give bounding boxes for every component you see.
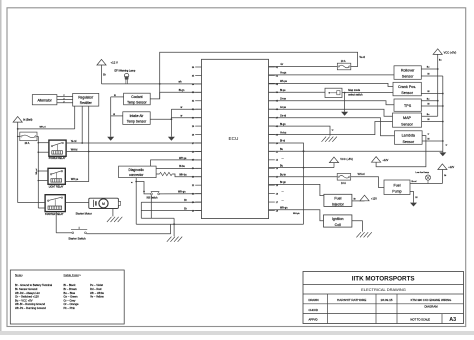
svg-text:DRAWN: DRAWN [309, 298, 319, 302]
svg-text:KTM 390 CXC ENGINE WIRING: KTM 390 CXC ENGINE WIRING [411, 298, 452, 302]
svg-text:Map mode: Map mode [348, 89, 360, 92]
wire MAP sensor to VCC bus [422, 114, 438, 116]
svg-text:10 A: 10 A [341, 182, 346, 185]
svg-text:Bu: Bu [280, 164, 284, 167]
svg-text:Lambda: Lambda [402, 134, 416, 138]
svg-text:bt (Batt): bt (Batt) [23, 117, 32, 121]
svg-text:Pk – Pink: Pk – Pink [64, 306, 76, 310]
svg-text:Gr – Grey: Gr – Grey [64, 298, 76, 302]
wire regulator output to power relay rail 1 [81, 106, 83, 144]
fuel pump M2 [384, 180, 410, 195]
svg-text:w: w [114, 94, 116, 97]
wire ECU pin 18 to ignition coil [269, 207, 324, 221]
wire kill switch to diagnostic drop [136, 182, 150, 194]
svg-text:10 A: 10 A [341, 60, 346, 63]
svg-text:Ye-bu: Ye-bu [280, 131, 287, 134]
fuse F2 10A [337, 56, 365, 70]
svg-text:Br: Br [184, 199, 187, 202]
wire intake sensor ground [111, 113, 123, 116]
power symbol +12V (lambda heater) [372, 157, 389, 163]
power symbol +12V (injector) [360, 195, 377, 201]
svg-text:Temp Sensor: Temp Sensor [127, 120, 147, 124]
svg-text:Ye-rd: Ye-rd [359, 56, 365, 59]
wire rollover sensor to VCC bus [421, 67, 438, 70]
wire battery drop to starter relay [18, 202, 45, 204]
svg-text:20 A: 20 A [25, 142, 30, 145]
svg-text:Bu: Bu [427, 114, 430, 116]
svg-text:15: 15 [276, 185, 279, 187]
svg-text:Bl-gn: Bl-gn [179, 89, 185, 92]
wire starter relay to starter motor [65, 202, 89, 204]
wire intake signal to ECU pin 31 [150, 118, 172, 120]
svg-text:WH-gn: WH-gn [178, 191, 186, 194]
notes and cable colour legend box [10, 270, 124, 324]
wire diagnostic connector to ECU pin 24 [156, 165, 201, 168]
svg-text:35: 35 [192, 75, 195, 77]
fuel injector Y1 [324, 194, 352, 206]
svg-text:12: 12 [276, 160, 279, 162]
ground arrow (map switch) [341, 112, 348, 116]
svg-text:Sensor: Sensor [401, 91, 413, 95]
wire fuel injector to +12V [352, 198, 365, 201]
diagnostic connector X1 [119, 166, 157, 178]
svg-text:Bl: Bl [428, 139, 430, 141]
fuse F3 10A [337, 174, 351, 186]
svg-text:VCC (+5V): VCC (+5V) [444, 50, 457, 54]
svg-text:+12V: +12V [448, 166, 454, 169]
svg-text:Sensor: Sensor [401, 123, 413, 127]
svg-text:+12 V: +12 V [111, 60, 119, 64]
wire ECU pin 4 to map switch [269, 89, 326, 92]
svg-text:18.09.15: 18.09.15 [380, 298, 392, 302]
svg-text:WH-bu: WH-bu [179, 174, 187, 177]
wire light relay to supply rail [65, 152, 88, 182]
page left edge shadow [0, 0, 2, 335]
ground hatch (sensor shield) [322, 137, 337, 142]
svg-text:HARSHIT RATHORE: HARSHIT RATHORE [337, 298, 366, 302]
svg-text:Bu: Bu [280, 148, 284, 151]
svg-text:01: 01 [276, 67, 279, 69]
svg-text:Starter Motor: Starter Motor [76, 211, 92, 215]
ECU U1 [202, 59, 269, 218]
svg-text:Regulator/: Regulator/ [78, 96, 93, 100]
map mode select switch S3 [325, 88, 363, 97]
wire ECU pin 13 VCC run [269, 158, 335, 169]
svg-text:Bu – Blue: Bu – Blue [64, 291, 76, 295]
page bottom edge shadow [0, 331, 474, 335]
wire kill switch ground drop [150, 195, 152, 219]
svg-text:Pump: Pump [392, 190, 401, 194]
svg-text:w: w [113, 113, 115, 116]
svg-text:WH-pk: WH-pk [293, 213, 300, 215]
wire ECU pin 8 to sensor ground [269, 123, 334, 136]
svg-text:wh: wh [179, 81, 183, 84]
svg-text:Bu: Bu [439, 59, 442, 61]
power relay K1 [49, 140, 66, 160]
wire power relay to ECU pin 26 [66, 148, 201, 151]
svg-text:CHCKD: CHCKD [309, 308, 319, 312]
resistor R1 [156, 172, 201, 177]
svg-text:Br: Br [444, 174, 446, 177]
alternator G1 [32, 95, 57, 105]
svg-text:Bl – Black: Bl – Black [64, 283, 77, 287]
wire bottom ground bus [136, 213, 303, 224]
svg-text:Wh-Pk – Running Ground: Wh-Pk – Running Ground [15, 306, 46, 310]
wire ECU pin 1 to fuse F2 [269, 63, 338, 66]
title block [303, 272, 464, 324]
crank position sensor B4 [393, 82, 421, 96]
wire +12V top bus [160, 52, 358, 99]
svg-text:WH-ye: WH-ye [179, 157, 187, 160]
svg-text:Or-ye: Or-ye [280, 98, 287, 101]
svg-text:WH-rd: WH-rd [358, 173, 366, 176]
throttle position sensor TPS B5 [394, 99, 421, 111]
ECU left pin stubs and pin numbers [192, 67, 202, 212]
junction bottom bus right [303, 150, 305, 152]
svg-text:Fuel: Fuel [394, 183, 401, 187]
wire starter motor to ground [112, 208, 114, 216]
svg-text:Br: Br [354, 198, 356, 200]
svg-text:select switch: select switch [348, 94, 363, 97]
svg-text:Gn – Green: Gn – Green [64, 295, 79, 299]
wire TPS to ground bus [421, 104, 443, 107]
svg-text:EFI Warning Lamp: EFI Warning Lamp [115, 69, 136, 72]
wire ECU pin 2 to rollover sensor [269, 72, 395, 75]
svg-text:Rd – Red: Rd – Red [90, 287, 102, 291]
wire map switch ground arrow [344, 93, 346, 112]
svg-text:+12V: +12V [371, 197, 377, 200]
svg-text:16: 16 [276, 194, 279, 196]
kill switch S1 [143, 191, 159, 199]
svg-text:36: 36 [192, 67, 195, 69]
lambda sensor B7 [395, 131, 423, 145]
svg-text:Temp Sensor: Temp Sensor [127, 101, 147, 105]
svg-text:WH-gn: WH-gn [280, 207, 288, 210]
svg-text:Fuel: Fuel [334, 197, 341, 201]
svg-text:22: 22 [192, 185, 195, 187]
svg-text:WH-ye: WH-ye [71, 178, 79, 181]
svg-text:Bu-br: Bu-br [280, 174, 286, 177]
svg-text:Wh-rd: Wh-rd [36, 168, 38, 175]
ignition coil T1 [324, 215, 352, 227]
sensor ground bus [443, 76, 448, 152]
svg-text:WH-bl: WH-bl [71, 148, 78, 151]
wire fuel pump to +12V rail [410, 181, 442, 184]
light relay K2 [48, 168, 65, 188]
wire diagnostic connector ground drop [131, 178, 137, 225]
svg-text:w: w [332, 130, 334, 132]
fuse F1 20A [20, 132, 37, 145]
wire lambda heater +12V loop [376, 133, 430, 166]
wire lambda sensor to ground bus [422, 139, 444, 142]
svg-text:Bl- Sensor Ground: Bl- Sensor Ground [15, 287, 38, 291]
svg-text:Injector: Injector [332, 203, 345, 207]
svg-text:—: — [282, 158, 285, 160]
svg-text:+12V: +12V [382, 159, 388, 162]
svg-text:Bl-ye: Bl-ye [280, 89, 286, 92]
svg-text:Br: Br [184, 207, 187, 210]
wire TPS to VCC bus [421, 98, 438, 101]
svg-text:Br-rd: Br-rd [412, 181, 418, 183]
wire ECU pin 3 to crank sensor [269, 80, 394, 86]
svg-text:29: 29 [192, 126, 195, 128]
wire fuel pump ground [410, 192, 418, 203]
svg-text:M: M [102, 202, 105, 206]
coolant temp sensor B1 [124, 93, 151, 105]
svg-text:Low fuel lamp: Low fuel lamp [416, 172, 430, 174]
svg-text:WH-rd: WH-rd [40, 126, 47, 129]
power symbol +12V (fuel pump) [438, 164, 455, 184]
svg-text:w: w [446, 145, 448, 147]
svg-text:DIAGRAM: DIAGRAM [424, 304, 438, 308]
wire map switch to crank sensor [342, 92, 393, 94]
svg-text:STARTER RELAY: STARTER RELAY [45, 213, 64, 216]
wires relay bus to light relay [38, 170, 49, 181]
svg-text:Bu: Bu [427, 67, 430, 69]
svg-text:Notes: Notes [15, 273, 23, 277]
wire power relay to ECU pin 27 [66, 140, 201, 143]
wire regulator output to power relay rail 2 [88, 106, 90, 152]
svg-text:Ye-gn: Ye-gn [280, 72, 287, 75]
svg-text:Or – Switched +12V: Or – Switched +12V [15, 295, 39, 299]
svg-text:—: — [282, 191, 285, 193]
svg-text:Bl-rd: Bl-rd [280, 140, 286, 143]
ground hatch (starter motor) [107, 217, 122, 222]
wire MAP sensor to ground bus [422, 119, 444, 122]
wire crank sensor to ground bus [421, 91, 443, 94]
svg-text:13: 13 [276, 168, 279, 170]
svg-text:Wh-ye: Wh-ye [280, 80, 288, 83]
wire ECU pin 19 run [141, 199, 201, 202]
svg-text:Bl: Bl [428, 104, 430, 106]
wires relay bus to power relay [38, 142, 49, 153]
wire ECU pin 15 to fuel injector [269, 181, 324, 202]
svg-text:02: 02 [276, 75, 279, 77]
svg-text:Alternator: Alternator [37, 98, 52, 102]
svg-text:Wh-Bl – Running Ground: Wh-Bl – Running Ground [15, 302, 46, 306]
svg-text:Ye – Yellow: Ye – Yellow [90, 295, 104, 299]
wire coolant signal to ECU pin 33 [150, 89, 201, 99]
wire kill switch to ECU pin 21 [160, 191, 202, 194]
wire ECU pin 14 to fuse F3 [269, 174, 338, 177]
svg-text:17: 17 [276, 202, 279, 204]
wire coolant sensor ground [111, 94, 124, 97]
svg-text:18: 18 [276, 210, 279, 212]
svg-text:Br - Ground to Battery Termina: Br - Ground to Battery Terminal [15, 283, 53, 287]
EFI warning lamp DS1 [115, 69, 136, 84]
svg-text:Bl: Bl [428, 91, 430, 93]
low fuel lamp DS2 [416, 172, 431, 184]
power symbol VCC +5V (ECU) [329, 157, 353, 163]
wire ECU pin 10 drop to bus [269, 140, 304, 225]
wire ECU pin 7 to lambda sensor [269, 114, 395, 135]
ground arrow (fuel pump) [410, 203, 417, 207]
wire battery main drop [17, 129, 19, 203]
ECU right pin stubs and pin numbers [269, 67, 279, 212]
wire ground collector [141, 218, 174, 236]
svg-text:NOT TO SCALE: NOT TO SCALE [410, 318, 430, 322]
svg-text:Sensor: Sensor [402, 140, 414, 144]
svg-text:w: w [428, 133, 430, 135]
MAP sensor B6 [393, 113, 422, 127]
rollover sensor B3 [394, 66, 421, 80]
wire battery to fuse F1 [17, 136, 20, 138]
ground hatch (main ground) [167, 237, 182, 242]
svg-text:Wh – White: Wh – White [90, 291, 104, 295]
wire ignition coil to ground [352, 221, 363, 232]
wire ECU pin 5 to TPS [269, 98, 395, 105]
svg-text:Gr: Gr [281, 63, 284, 66]
svg-text:Coolant: Coolant [131, 95, 142, 99]
svg-text:POWER RELAY: POWER RELAY [49, 157, 66, 160]
svg-text:ECU: ECU [229, 136, 240, 141]
svg-text:Gn-rd: Gn-rd [280, 114, 287, 117]
starter motor M1 [76, 198, 121, 215]
wire pins run drop [140, 202, 142, 218]
svg-text:A3: A3 [449, 317, 456, 323]
ground arrow (temp sensors) [107, 137, 114, 141]
svg-text:APPVD: APPVD [309, 318, 318, 322]
svg-text:Br: Br [103, 73, 106, 76]
sensor VCC bus [437, 54, 439, 116]
ground hatch (ignition coil) [356, 232, 371, 237]
svg-text:Bl-bu: Bl-bu [179, 165, 185, 168]
svg-text:Bu – VCC +5V: Bu – VCC +5V [15, 298, 33, 302]
svg-text:MAP: MAP [403, 116, 412, 120]
svg-text:VCC (+5V): VCC (+5V) [340, 157, 353, 161]
sensor ground bus [110, 97, 112, 137]
svg-text:Crank Pos.: Crank Pos. [398, 85, 416, 89]
svg-text:Bl: Bl [415, 197, 417, 199]
wire +12V drop to lamp rail [102, 65, 106, 84]
svg-text:Starter Switch: Starter Switch [68, 236, 86, 240]
svg-text:connector: connector [129, 173, 144, 177]
starter relay K3 [45, 195, 65, 216]
svg-text:Ye-rd: Ye-rd [71, 140, 77, 143]
power symbol VCC +5V (sensors) [433, 49, 456, 62]
svg-text:Ignition: Ignition [332, 217, 344, 221]
wire intake junction to ECU pin 31/30 [171, 106, 201, 137]
svg-text:w: w [131, 182, 133, 184]
svg-text:32: 32 [192, 101, 195, 103]
svg-text:Br-gn: Br-gn [280, 181, 287, 184]
regulator rectifier U2 [73, 93, 99, 106]
wire ECU pin 9 to MAP lower pin [269, 122, 393, 135]
svg-text:w: w [181, 106, 183, 109]
wire ECU pin 18 run [141, 207, 201, 210]
wire fuse F3 to fuel pump [351, 173, 384, 188]
svg-text:Bu: Bu [427, 98, 430, 100]
wire starter switch to ground node [86, 224, 170, 234]
intake air temp sensor B2 [123, 112, 150, 125]
svg-text:Rectifier: Rectifier [80, 101, 93, 105]
wires alternator to regulator (3 phase) [57, 95, 73, 103]
wire diagnostic connector to ECU pin 25 [151, 157, 202, 166]
ground arrow (sensor ground bus) [439, 152, 446, 156]
svg-text:Pu – Violet: Pu – Violet [90, 283, 103, 287]
power symbol battery +V(Batt) [13, 117, 32, 123]
svg-text:w: w [181, 115, 183, 118]
svg-text:IITK MOTORSPORTS: IITK MOTORSPORTS [352, 276, 415, 283]
svg-text:Kill Switch: Kill Switch [147, 197, 159, 200]
svg-text:TPS: TPS [404, 104, 412, 108]
svg-text:Sensor: Sensor [402, 75, 414, 79]
svg-text:03: 03 [276, 84, 279, 86]
svg-text:28: 28 [192, 134, 195, 136]
starter switch S2 [68, 227, 87, 241]
svg-text:Bl-gn: Bl-gn [280, 123, 286, 126]
wire lamp rail to ECU pin 34 [102, 81, 202, 84]
junction +12V rail [159, 83, 161, 85]
svg-text:Br – Brown: Br – Brown [64, 287, 78, 291]
wire starter relay coil drop [56, 212, 72, 233]
wire relay bus to starter relay [38, 207, 45, 209]
svg-text:—: — [282, 200, 285, 202]
svg-text:Wh-Rd – Always Hot: Wh-Rd – Always Hot [15, 291, 40, 295]
power symbol +12V (EFI lamp supply) [97, 59, 118, 65]
svg-text:Diagnostic: Diagnostic [128, 168, 144, 172]
svg-text:Bl: Bl [428, 74, 430, 76]
svg-text:Gr-ye: Gr-ye [280, 106, 287, 109]
wire battery to regulator [17, 106, 75, 130]
svg-text:Bl: Bl [428, 119, 430, 121]
svg-text:Or – Orange: Or – Orange [64, 302, 79, 306]
svg-text:LIGHT RELAY: LIGHT RELAY [49, 185, 64, 188]
junction ground collector [173, 223, 175, 225]
svg-text:Intake Air: Intake Air [130, 114, 145, 118]
wire ECU pin 11 ground run [269, 148, 443, 152]
ground arrow (intake junction) [168, 137, 175, 141]
wire rollover sensor to ground bus [421, 74, 443, 76]
wire fuse F1 to relay bus [36, 136, 39, 208]
svg-text:Rollover: Rollover [401, 68, 415, 72]
svg-text:ELECTRICAL DRAWING: ELECTRICAL DRAWING [361, 287, 406, 292]
svg-text:Cable Colors: Cable Colors [64, 273, 82, 277]
svg-text:Coil: Coil [335, 223, 341, 227]
wire ECU pin 6 to MAP sensor [269, 106, 393, 116]
